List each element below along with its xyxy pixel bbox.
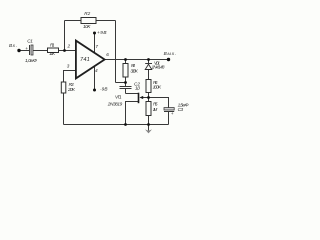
svg-text:VT1: VT1 xyxy=(115,94,122,99)
svg-text:C1: C1 xyxy=(27,39,33,44)
svg-text:Вых.: Вых. xyxy=(164,51,177,56)
svg-text:+: + xyxy=(171,111,174,116)
svg-text:6: 6 xyxy=(106,52,109,57)
svg-text:741: 741 xyxy=(80,57,90,63)
svg-text:R1: R1 xyxy=(50,42,55,47)
svg-text:330K: 330K xyxy=(130,69,138,74)
svg-text:R5: R5 xyxy=(153,102,158,107)
svg-text:20K: 20K xyxy=(67,87,76,92)
svg-text:2N3819: 2N3819 xyxy=(107,101,123,106)
svg-text:2: 2 xyxy=(67,43,71,48)
svg-text:+: + xyxy=(25,46,28,51)
svg-text:10K: 10K xyxy=(49,51,56,56)
svg-text:Вх.: Вх. xyxy=(9,43,17,48)
svg-text:R4: R4 xyxy=(131,63,135,68)
svg-text:7: 7 xyxy=(95,44,98,49)
svg-text:1,0: 1,0 xyxy=(135,86,140,91)
svg-text:C3: C3 xyxy=(178,107,184,112)
svg-text:+9В: +9В xyxy=(97,30,107,35)
svg-text:R2: R2 xyxy=(84,11,90,16)
svg-text:10K: 10K xyxy=(83,24,91,29)
svg-text:1M: 1M xyxy=(153,107,158,112)
svg-text:100K: 100K xyxy=(153,84,162,89)
svg-text:1N4148: 1N4148 xyxy=(152,65,165,70)
svg-text:-9В: -9В xyxy=(100,87,108,92)
svg-text:1,0мФ: 1,0мФ xyxy=(25,58,37,63)
svg-text:3: 3 xyxy=(67,63,70,68)
svg-text:4: 4 xyxy=(95,68,98,73)
